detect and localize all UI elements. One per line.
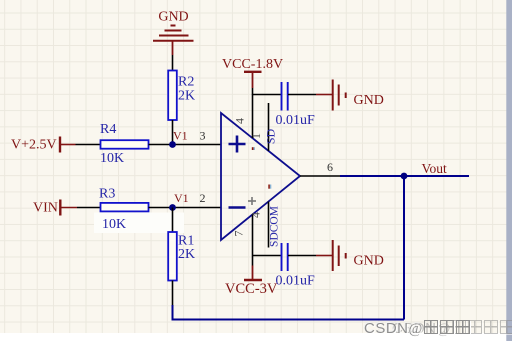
- wire R1 down (black part): [172, 281, 174, 306]
- svg-text:Vout: Vout: [422, 161, 448, 176]
- pin name SD (rotated): [264, 128, 278, 144]
- wire VCC-1.8V rail to cap: [253, 94, 282, 96]
- op-amp small + mark bottom: [248, 197, 256, 205]
- svg-text:SDCOM: SDCOM: [269, 206, 281, 247]
- svg-text:4: 4: [249, 212, 263, 218]
- white highlight box behind R3 value: [94, 213, 184, 234]
- svg-text:V1: V1: [173, 129, 188, 143]
- wire feedback bottom horizontal: [172, 319, 405, 321]
- port VIN: [33, 200, 77, 216]
- power VCC-1.8V symbol: [222, 57, 283, 95]
- wire R2 to node V1 top: [172, 120, 174, 145]
- op-amp + input mark: [229, 136, 246, 153]
- scrollbar strip right: [506, 0, 512, 341]
- svg-text:R4: R4: [100, 122, 116, 137]
- wire feedback right vertical: [403, 176, 405, 320]
- svg-text:7: 7: [232, 231, 246, 237]
- port V+2.5V: [11, 137, 76, 153]
- pin 7 number (rotated): [232, 231, 246, 237]
- svg-text:6: 6: [327, 160, 333, 174]
- op-amp small - mark top: [252, 147, 255, 150]
- node V1 bottom junction: [169, 191, 205, 211]
- svg-text:1: 1: [249, 133, 263, 139]
- wire GND to R2: [172, 55, 174, 71]
- ground GND right bottom symbol: [333, 240, 346, 271]
- ground GND right bottom label: [354, 254, 384, 269]
- op-amp - input mark: [229, 206, 246, 209]
- svg-text:2K: 2K: [178, 247, 195, 262]
- wire cap to GND top right: [288, 94, 332, 96]
- ground GND top power symbol: [153, 26, 194, 56]
- svg-text:2K: 2K: [178, 89, 195, 104]
- resistor R4: [100, 122, 149, 166]
- capacitor C top 0.01uF: [276, 82, 316, 128]
- svg-text:10K: 10K: [102, 217, 126, 232]
- svg-text:GND: GND: [354, 93, 384, 108]
- svg-text:0.01uF: 0.01uF: [276, 113, 316, 128]
- white margin bottom: [0, 333, 512, 341]
- wire R4 to op-amp pin 3: [149, 144, 221, 146]
- capacitor C bottom 0.01uF: [276, 243, 316, 289]
- resistor R3: [99, 187, 149, 233]
- ground GND right top symbol: [333, 80, 346, 111]
- op-amp U1 triangle: [221, 113, 300, 240]
- power VCC-3V symbol: [225, 256, 278, 298]
- op-amp small output - mark: [268, 185, 271, 189]
- resistor R1: [168, 232, 195, 281]
- pin 7 line bottom: [252, 215, 254, 256]
- svg-text:VCC-3V: VCC-3V: [225, 281, 278, 297]
- wire op-amp output pin 6: [300, 160, 340, 176]
- pin 1 number (rotated): [249, 133, 263, 139]
- svg-text:SD: SD: [264, 128, 278, 144]
- wire cap to GND bottom right: [288, 255, 332, 257]
- ground GND top label: [158, 10, 188, 25]
- svg-text:V+2.5V: V+2.5V: [11, 138, 57, 153]
- svg-text:0.01uF: 0.01uF: [276, 274, 316, 289]
- pin 4 number top (rotated): [233, 118, 247, 124]
- wire output to Vout: [340, 175, 469, 177]
- svg-text:R2: R2: [178, 75, 194, 90]
- pin 4 line top: [252, 95, 254, 139]
- wire port to R4: [76, 144, 101, 146]
- watermark CSDN back layer: [392, 320, 512, 338]
- net label Vout: [422, 161, 448, 176]
- wire port to R3: [77, 207, 101, 209]
- ground GND right top label: [354, 93, 384, 108]
- svg-text:3: 3: [200, 129, 206, 143]
- pin 4 line bottom SDCOM: [268, 202, 270, 248]
- svg-text:VCC-1.8V: VCC-1.8V: [222, 57, 283, 72]
- wire VCC-3V rail to cap: [253, 255, 282, 257]
- svg-text:10K: 10K: [100, 151, 124, 166]
- svg-text:R3: R3: [99, 187, 115, 202]
- wire feedback left vertical (navy): [172, 305, 174, 319]
- svg-text:4: 4: [233, 118, 247, 124]
- wire node V1 to R1: [172, 208, 174, 233]
- watermark CSDN front layer: [364, 320, 471, 338]
- svg-text:V1: V1: [174, 191, 189, 205]
- svg-text:GND: GND: [354, 254, 384, 269]
- svg-text:VIN: VIN: [33, 201, 58, 216]
- pin 4 number bottom (rotated): [249, 212, 263, 218]
- svg-text:GND: GND: [158, 10, 188, 25]
- pin 1 line SD: [268, 103, 270, 151]
- svg-text:2: 2: [200, 191, 206, 205]
- wire R3 to op-amp pin 2: [149, 207, 221, 209]
- pin name SDCOM (rotated): [269, 206, 281, 247]
- node V1 top junction: [169, 129, 205, 148]
- node Vout junction: [401, 173, 408, 180]
- resistor R2: [168, 71, 195, 121]
